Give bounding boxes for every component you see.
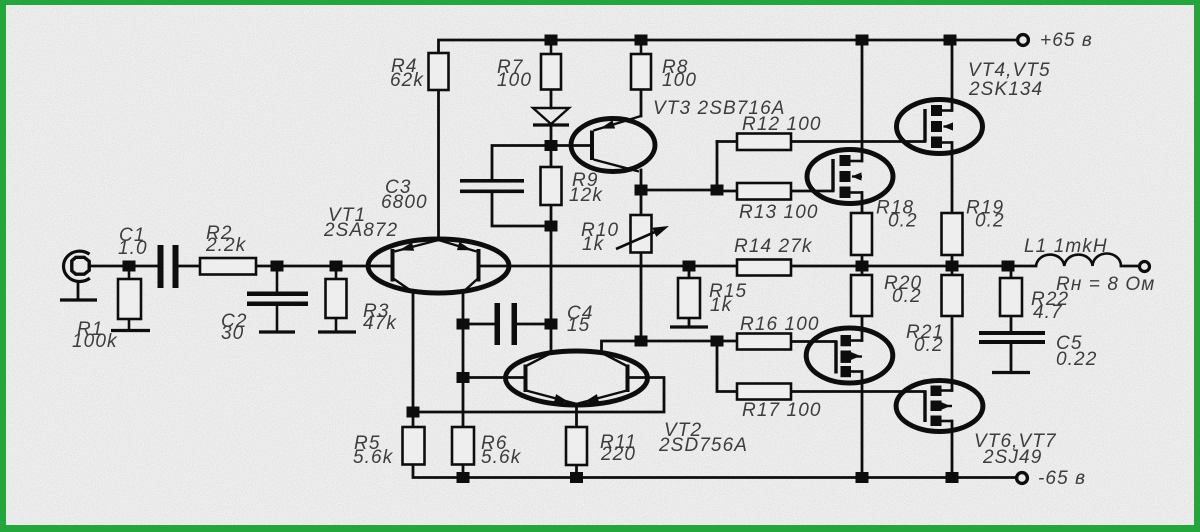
dual transistor VT1 2SA872 [368, 239, 509, 293]
wire: VT1 right collector down to R6 (through C4 and VT2 base taps) [462, 292, 465, 427]
mosfet VT7 2SJ49 [896, 381, 983, 432]
wire: node to R10 top [640, 190, 643, 215]
node: R9 bottom / C3 [545, 221, 558, 232]
diode VD1 [533, 108, 569, 125]
node: R16/R17 column [711, 336, 724, 347]
svg-text:L1 1mkH: L1 1mkH [1024, 236, 1108, 257]
node: top rail R8 [635, 35, 648, 46]
resistor R16 [737, 334, 791, 350]
svg-text:R13 100: R13 100 [739, 202, 819, 223]
svg-text:47k: 47k [363, 313, 397, 334]
resistor R9 [541, 167, 562, 205]
resistor R15 [678, 278, 700, 318]
wire: R15 bottom to ground [688, 318, 691, 327]
resistor R3 [326, 266, 347, 332]
resistor R5 [403, 427, 425, 465]
resistor R13 [737, 183, 791, 200]
node: bottom rail VT7 source [946, 472, 959, 483]
svg-text:R17 100: R17 100 [742, 400, 822, 421]
resistor R18 [851, 213, 872, 255]
svg-text:Rн = 8 Ом: Rн = 8 Ом [1056, 274, 1155, 295]
node: VT3 base / diode / C3 / R9 [545, 140, 558, 151]
wire: bottom supply rail -65V [413, 464, 1016, 478]
node: bottom rail VT6 source [856, 472, 869, 483]
wire: R15 node to R15 top [688, 266, 691, 278]
node: R3 tap [330, 261, 343, 272]
trimmer resistor R10 [616, 215, 669, 253]
resistor R6 [452, 427, 474, 465]
resistor R8 [631, 40, 651, 90]
svg-text:30: 30 [221, 323, 244, 344]
svg-text:5.6k: 5.6k [353, 447, 394, 468]
svg-text:100: 100 [662, 70, 697, 91]
svg-text:5.6k: 5.6k [481, 447, 522, 468]
wire: C4 right lead [517, 323, 551, 326]
wire: C3 bottom to R9 bottom node [492, 193, 551, 226]
svg-text:0.2: 0.2 [888, 211, 918, 232]
wire: node to C3 top (left branch at y=145.5) [492, 146, 551, 180]
ground bar of R3 [318, 330, 356, 333]
svg-text:2SA872: 2SA872 [323, 220, 398, 241]
svg-text:-65 в: -65 в [1038, 468, 1086, 489]
svg-text:12k: 12k [569, 185, 603, 206]
capacitor C4 [495, 303, 518, 345]
resistor R21 [942, 275, 963, 316]
wire: VT5 source to R18 [861, 193, 864, 214]
node: output at R18/R20 [856, 261, 869, 272]
capacitor C2 [247, 266, 308, 332]
node: bottom rail R6 [457, 472, 470, 483]
ground bar of R15 [670, 325, 708, 328]
svg-text:2SJ49: 2SJ49 [982, 447, 1042, 468]
resistor R7 [541, 40, 561, 90]
wire: main rail to R21 top [951, 266, 954, 275]
svg-text:VT4,VT5: VT4,VT5 [968, 60, 1051, 81]
svg-text:R16 100: R16 100 [740, 314, 820, 335]
node: VT3 collector / R10 [635, 185, 648, 196]
wire: input connector to C1 left plate (main rail) [90, 265, 157, 268]
resistor R11 [566, 427, 587, 465]
resistor R22 [1000, 278, 1022, 316]
wire: R2 to VT1 left base (main rail, through C2 and R3 taps) [256, 265, 392, 268]
wire: R11 bottom to bottom rail [575, 465, 578, 478]
terminal +65V [1018, 35, 1029, 46]
svg-text:2.2k: 2.2k [205, 235, 247, 256]
wire: R6 bottom to bottom rail [462, 464, 465, 478]
wire: top rail to VT4 drain [951, 40, 954, 111]
node: output at R22/L1 [1002, 261, 1015, 272]
svg-text:0.2: 0.2 [914, 335, 944, 356]
resistor R19 [942, 213, 963, 255]
resistor R4 [429, 53, 449, 90]
resistor R1 [118, 266, 141, 331]
svg-text:1.0: 1.0 [118, 238, 148, 259]
transistor VT3 2SB716A [571, 116, 655, 172]
svg-text:2SD756A: 2SD756A [658, 435, 748, 456]
mosfet VT5 2SK134 [807, 150, 893, 204]
svg-text:1k: 1k [710, 295, 733, 316]
wire: VT1 left collector down to R5 node [412, 292, 415, 412]
wire: R21 bottom to VT7 drain [951, 316, 954, 391]
node: VT2 left base tap [457, 372, 470, 383]
wire: C1 right plate to R2 [179, 265, 200, 268]
node: C2 tap [271, 261, 284, 272]
wire: R12 right to VT4 gate [791, 140, 925, 143]
node: R10 bottom / R16 [635, 336, 648, 347]
svg-text:62k: 62k [390, 70, 424, 91]
wire: R8 bottom to VT3 emitter [640, 90, 643, 117]
wire: VT3 collector node to R12/R13 column [641, 189, 717, 192]
wire: R16/R17 left lead column [717, 341, 737, 392]
node: VT1 left collector / R5 [407, 407, 420, 418]
wire: R13 right to VT5 gate [791, 190, 833, 193]
ground bar of input connector [60, 298, 97, 301]
node: top rail VT4 drain [944, 35, 957, 46]
wire: R17 right to VT7 gate [791, 390, 925, 393]
mosfet VT6 2SJ49 [806, 328, 893, 383]
node: C4 right tap [545, 319, 558, 330]
wire: C5 bottom to ground [1010, 344, 1013, 372]
wire: R20 bottom to VT6 drain [861, 316, 864, 341]
node: bottom rail R11 [570, 472, 583, 483]
resistor R14 [737, 260, 791, 276]
node: top rail R7 [545, 35, 558, 46]
wire: L1 to output terminal [1121, 265, 1139, 268]
wire: R14 to L1 (output rail) [791, 265, 1036, 268]
wire: VT4 source to R19 [951, 143, 954, 214]
input connector XS1 [64, 251, 91, 299]
wire: R22 bottom to C5 top [1010, 316, 1013, 331]
resistor R17 [737, 384, 791, 400]
wire: main rail to R20 top [861, 266, 864, 275]
wire: R9 bottom node down to VT2 left collector (through C4 tap) [550, 205, 553, 353]
node: R15 / feedback [683, 261, 696, 272]
wire: VT7 source down to bottom rail [951, 421, 954, 478]
wire: R7 bottom to diode anode [550, 90, 553, 109]
wire: R10 bottom crossing main rail down to R16 node [640, 253, 643, 342]
wire: R16 left lead [717, 340, 737, 343]
svg-text:100k: 100k [72, 331, 118, 352]
node: R12/R13 column [711, 185, 724, 196]
node: output at R19/R21 [946, 261, 959, 272]
wire: diode cathode to node at VT3 base [550, 125, 553, 167]
wire: R16 right to VT6 gate [791, 340, 836, 343]
svg-text:R12 100: R12 100 [742, 114, 822, 135]
svg-text:220: 220 [600, 444, 636, 465]
node: input / R1 / C1 [123, 261, 136, 272]
wire: VT2 right collector to R16 node [602, 341, 718, 353]
capacitor C1 [158, 245, 179, 288]
capacitor C3 [460, 179, 524, 193]
output terminal [1140, 262, 1150, 272]
svg-text:R14 27k: R14 27k [734, 236, 813, 257]
inductor L1 [1036, 253, 1121, 266]
wire: R18 bottom to main rail [861, 255, 864, 266]
svg-text:1k: 1k [582, 234, 605, 255]
ground bar of C2 [259, 330, 295, 333]
wire: VT3 collector down to node [640, 170, 643, 190]
wire: top rail to VT5 drain column [861, 40, 864, 161]
resistor R20 [851, 275, 872, 316]
wire: VT2 left base lead [463, 376, 525, 379]
wire: R12 left lead column [717, 142, 737, 192]
resistor R12 [737, 134, 791, 151]
node: top rail VT5 drain [856, 35, 869, 46]
wire: main rail to R22 top [1010, 266, 1013, 278]
wire: VT1 right base to R14 (main rail, feedback node) [479, 265, 737, 268]
ground bar of R1 [111, 329, 150, 332]
svg-text:4.7: 4.7 [1033, 302, 1063, 323]
svg-text:100: 100 [497, 70, 532, 91]
mosfet VT4 2SK134 [897, 100, 983, 154]
wire: R5 node to R5 top [412, 412, 415, 427]
wire: VT3 base lead [551, 144, 591, 147]
ground bar of C5 [992, 371, 1030, 374]
svg-text:0.22: 0.22 [1056, 349, 1097, 370]
svg-text:+65 в: +65 в [1040, 30, 1093, 51]
svg-text:15: 15 [567, 315, 590, 336]
wire: C4 left lead [463, 323, 495, 326]
capacitor C5 [979, 331, 1045, 344]
svg-text:0.2: 0.2 [975, 211, 1005, 232]
wire: VT2 common emitter to R11 [575, 404, 578, 427]
terminal -65V [1017, 473, 1028, 484]
resistor R2 [200, 258, 256, 275]
wire: R12 left lead [717, 140, 737, 143]
wire: VT6 source down to bottom rail [861, 372, 864, 478]
wire: R4 bottom to VT1 common emitter [437, 90, 440, 240]
svg-text:2SK134: 2SK134 [968, 79, 1043, 100]
wire: R19 bottom to main rail [951, 255, 954, 266]
wire: R5 node to VT2 right base loop [413, 378, 664, 413]
svg-text:6800: 6800 [381, 192, 428, 213]
wire: top supply rail +65V [439, 40, 1018, 53]
svg-text:0.2: 0.2 [892, 286, 922, 307]
node: C4 left tap [457, 319, 470, 330]
dual transistor VT2 2SD756A [506, 351, 648, 405]
